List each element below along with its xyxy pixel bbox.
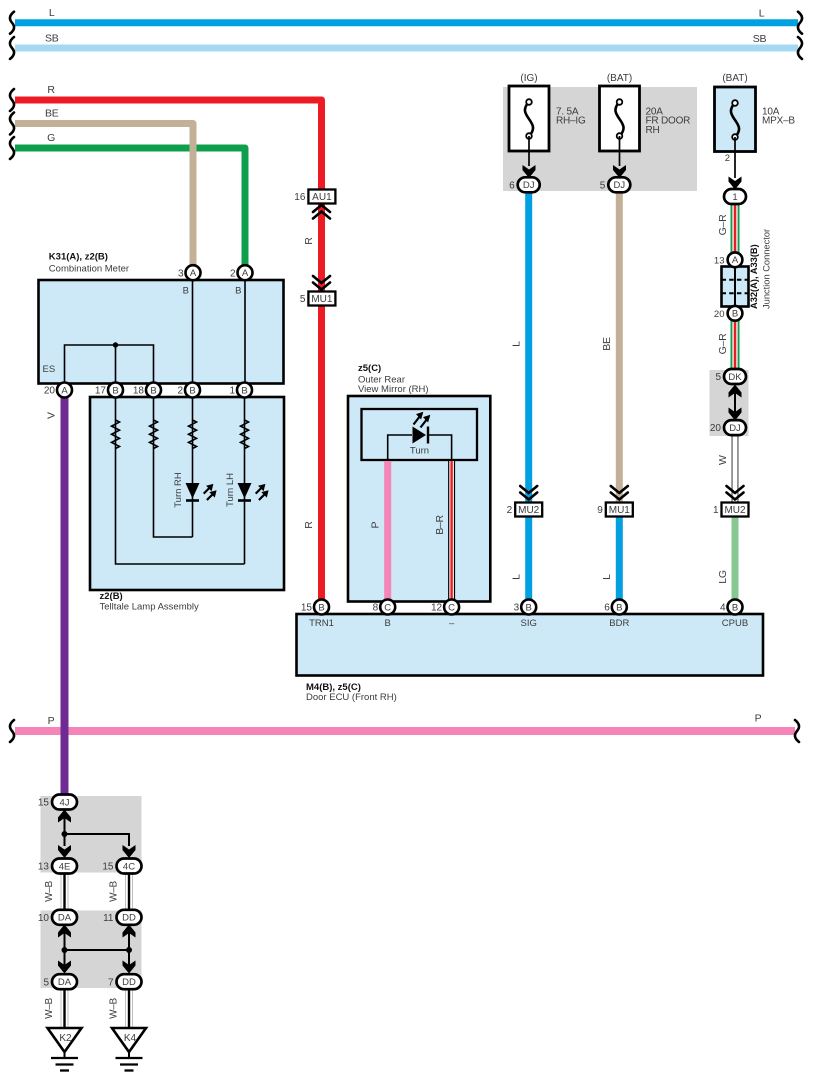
svg-text:5: 5 — [43, 977, 49, 988]
connector 5 DK — [724, 369, 746, 384]
wire W DJ to MU2 — [732, 435, 739, 505]
junction dot DA — [62, 947, 68, 953]
svg-text:RH–IG: RH–IG — [556, 116, 586, 127]
wire B-R mirror to ECU pin12 — [448, 461, 455, 600]
pin 20 B junction — [728, 306, 743, 321]
connector shading 4J/4E/4C — [41, 796, 142, 873]
connector 15 4C — [117, 859, 142, 874]
meter pin 2 B — [185, 383, 200, 398]
fuse 10A MPX-B body — [715, 87, 756, 152]
svg-text:DA: DA — [58, 913, 72, 924]
connector shading DA/DD — [41, 911, 142, 989]
meter internal ES bus wire — [65, 345, 154, 383]
svg-text:MU1: MU1 — [609, 505, 631, 516]
svg-text:B: B — [732, 309, 738, 320]
svg-text:15: 15 — [38, 798, 50, 809]
svg-text:DJ: DJ — [523, 180, 535, 191]
connector 5 DJ — [608, 177, 630, 192]
svg-text:ES: ES — [43, 364, 56, 375]
connector 10 DA — [52, 910, 77, 925]
svg-text:A: A — [242, 268, 249, 279]
wire R AU1 to ECU pin15 — [318, 203, 325, 600]
svg-text:6: 6 — [604, 603, 610, 614]
svg-text:3: 3 — [514, 603, 520, 614]
svg-text:DK: DK — [728, 372, 742, 383]
arrow down to 4E — [58, 845, 71, 858]
svg-text:10: 10 — [38, 913, 50, 924]
ground K2 — [48, 1028, 82, 1052]
svg-text:P: P — [48, 715, 55, 727]
meter internal wire pin2A to pin1B, B — [244, 280, 246, 383]
mirror turn lamp inner box — [362, 409, 478, 460]
meter pin 18 B — [146, 383, 161, 398]
svg-text:Junction Connector: Junction Connector — [762, 229, 772, 309]
svg-text:P: P — [755, 713, 762, 725]
svg-text:MU1: MU1 — [311, 294, 333, 305]
wire L bus — [15, 19, 798, 26]
connector 6 DJ — [518, 177, 540, 192]
svg-text:R: R — [303, 521, 315, 529]
svg-text:G: G — [47, 132, 55, 144]
svg-text:B: B — [526, 602, 532, 613]
link 4J to 4E/4C — [65, 809, 130, 846]
svg-text:B: B — [183, 286, 189, 297]
svg-text:13: 13 — [38, 862, 50, 873]
wire G feed — [15, 148, 245, 266]
svg-text:2: 2 — [230, 268, 236, 279]
combination meter box K31(A) z2(B) — [39, 280, 284, 384]
svg-text:DJ: DJ — [613, 180, 625, 191]
junction dot DD — [126, 947, 132, 953]
svg-text:CPUB: CPUB — [722, 618, 748, 629]
meter pin 3 A — [186, 265, 201, 280]
svg-text:11: 11 — [103, 913, 114, 924]
connector 5 DA — [52, 974, 77, 989]
svg-text:MU2: MU2 — [518, 505, 540, 516]
wire L fuse to SIG — [525, 191, 532, 600]
svg-text:B: B — [235, 286, 241, 297]
svg-text:B: B — [112, 385, 118, 396]
chevron down at MU2 CPUB — [727, 486, 744, 500]
svg-text:SB: SB — [753, 33, 767, 45]
connector 13 4E — [52, 859, 77, 874]
wire SB bus — [15, 45, 798, 52]
svg-text:View Mirror (RH): View Mirror (RH) — [358, 384, 429, 395]
junction block J/B shading (fuse area) — [503, 87, 697, 191]
resistor pin18 — [150, 420, 158, 449]
svg-text:B–R: B–R — [434, 515, 446, 535]
fuse FR DOOR drop to 5DJ — [619, 136, 621, 166]
fuse 20A FR DOOR RH — [600, 86, 640, 151]
svg-text:(IG): (IG) — [520, 73, 537, 84]
mirror turn lamp wiring — [388, 435, 452, 459]
resistor pin1 — [241, 420, 249, 449]
wire LG MU2 to CPUB — [732, 504, 739, 600]
wire P bus lower — [15, 727, 795, 735]
svg-text:15: 15 — [102, 862, 114, 873]
chevron down at MU2 SIG — [520, 486, 537, 500]
svg-text:Turn LH: Turn LH — [225, 473, 236, 507]
svg-text:W–B: W–B — [109, 997, 120, 1018]
svg-text:B: B — [318, 602, 324, 613]
ground K4 — [112, 1028, 146, 1052]
arrow up to DA — [58, 925, 71, 938]
svg-text:K2: K2 — [59, 1033, 72, 1044]
arrow down to 7DD — [123, 961, 136, 974]
svg-text:20: 20 — [710, 423, 722, 434]
svg-text:9: 9 — [597, 505, 603, 516]
svg-text:B: B — [150, 385, 156, 396]
ECU pin 12 C — [444, 600, 459, 615]
svg-text:2: 2 — [725, 153, 730, 164]
LED Turn RH — [186, 483, 200, 499]
connector 2 MU2 — [515, 503, 542, 517]
link DA/DD to 5DA/7DD — [65, 925, 130, 968]
svg-text:4E: 4E — [59, 861, 71, 872]
outer rear view mirror box z5(C) — [348, 396, 490, 602]
svg-text:3: 3 — [178, 268, 184, 279]
mirror LED diode — [413, 427, 427, 444]
svg-text:C: C — [448, 602, 455, 613]
svg-text:BE: BE — [45, 108, 59, 120]
svg-text:Door ECU (Front RH): Door ECU (Front RH) — [306, 692, 397, 703]
telltale wire pin2 branch — [192, 397, 194, 537]
ECU pin 6 B — [612, 600, 627, 615]
svg-text:4C: 4C — [123, 861, 135, 872]
connector 7 DD — [117, 974, 142, 989]
svg-text:–: – — [449, 618, 455, 629]
junction connector A32(A) A33(B) — [722, 267, 749, 307]
svg-text:L: L — [759, 8, 765, 20]
svg-text:L: L — [511, 574, 523, 580]
svg-text:5: 5 — [715, 372, 721, 383]
svg-text:z5(C): z5(C) — [358, 363, 381, 374]
svg-text:17: 17 — [95, 386, 107, 397]
meter pin 1 B — [237, 383, 252, 398]
svg-text:13: 13 — [714, 256, 725, 267]
svg-text:(BAT): (BAT) — [607, 73, 632, 84]
svg-text:7: 7 — [108, 977, 114, 988]
svg-text:5: 5 — [300, 294, 306, 305]
svg-text:C: C — [384, 602, 391, 613]
junction dot 4J — [62, 831, 68, 837]
ECU pin 3 B — [521, 600, 536, 615]
svg-text:R: R — [47, 84, 55, 96]
arrow down to 4C — [123, 845, 136, 858]
svg-text:B: B — [616, 602, 622, 613]
connector 16 AU1 — [308, 190, 335, 204]
svg-text:z2(B): z2(B) — [100, 591, 123, 602]
svg-text:1: 1 — [229, 386, 235, 397]
resistor pin17 — [112, 420, 120, 449]
svg-text:DJ: DJ — [729, 423, 741, 434]
svg-text:4J: 4J — [59, 797, 69, 808]
svg-text:8: 8 — [373, 603, 379, 614]
fuse 7.5A RH-IG — [509, 86, 549, 151]
svg-text:MPX–B: MPX–B — [762, 116, 795, 127]
arrow down to 5DA — [58, 961, 71, 974]
svg-text:Telltale Lamp Assembly: Telltale Lamp Assembly — [100, 602, 200, 613]
svg-text:Turn RH: Turn RH — [173, 472, 184, 508]
svg-text:B: B — [385, 618, 391, 629]
svg-text:W–B: W–B — [44, 997, 55, 1018]
svg-text:6: 6 — [509, 180, 515, 191]
connector 1 MU2 right — [722, 503, 749, 517]
svg-text:2: 2 — [177, 386, 183, 397]
svg-text:20: 20 — [714, 309, 725, 320]
mirror LED emission arrows — [414, 414, 423, 425]
svg-text:DD: DD — [122, 977, 136, 988]
meter pin 2 A — [238, 265, 253, 280]
svg-text:(BAT): (BAT) — [722, 73, 747, 84]
telltale wire pin1 branch — [244, 397, 246, 564]
svg-text:G–R: G–R — [717, 333, 729, 354]
arrows DK to DJ — [734, 390, 736, 415]
chevron down at MU1 BDR — [611, 486, 628, 500]
svg-text:W–B: W–B — [44, 880, 55, 901]
svg-text:4: 4 — [720, 603, 726, 614]
svg-text:20: 20 — [44, 386, 56, 397]
connector shading DK/DJ — [710, 370, 749, 436]
resistor pin2 — [189, 420, 197, 449]
wire W-B segment 1 — [61, 873, 69, 910]
svg-text:V: V — [46, 412, 58, 419]
svg-text:Combination Meter: Combination Meter — [49, 263, 129, 274]
svg-text:LG: LG — [717, 570, 729, 584]
svg-text:5: 5 — [600, 180, 606, 191]
connector 5 MU1 — [308, 292, 335, 306]
svg-text:BE: BE — [601, 337, 613, 351]
svg-text:B: B — [189, 385, 195, 396]
LED Turn LH — [238, 483, 252, 499]
svg-text:A: A — [190, 268, 197, 279]
svg-text:DA: DA — [58, 977, 72, 988]
svg-text:L: L — [49, 7, 55, 19]
connector 20 DJ — [724, 420, 746, 435]
svg-text:RH: RH — [646, 125, 660, 136]
telltale lamp assembly box z2(B) — [90, 397, 284, 590]
svg-text:SB: SB — [45, 33, 59, 45]
meter pin 17 B — [108, 383, 123, 398]
arrow up to 4J — [58, 810, 71, 823]
svg-text:L: L — [511, 341, 523, 347]
wire W-B segment 4 — [125, 989, 133, 1028]
svg-text:1: 1 — [713, 505, 719, 516]
svg-text:W: W — [717, 455, 729, 465]
wire W-B segment 2 — [125, 873, 133, 910]
door ECU box M4(B) z5(C) — [297, 614, 764, 676]
svg-text:16: 16 — [294, 192, 306, 203]
fuse MPX-B drop to 1 — [734, 137, 736, 178]
meter pin 20 A — [57, 383, 72, 398]
wire R feed — [15, 100, 322, 190]
svg-text:R: R — [303, 237, 315, 245]
fuse RH-IG drop to 6DJ — [528, 136, 530, 166]
connector 9 MU1 — [606, 503, 633, 517]
telltale wire pin18 branch — [154, 397, 193, 537]
wire V meter pin20 to 4J — [61, 397, 69, 795]
chevron down at MU1 red — [313, 276, 330, 290]
svg-text:12: 12 — [431, 603, 443, 614]
svg-text:MU2: MU2 — [724, 505, 746, 516]
svg-text:BDR: BDR — [609, 618, 629, 629]
svg-text:K31(A), z2(B): K31(A), z2(B) — [49, 252, 108, 263]
svg-text:1: 1 — [732, 192, 737, 203]
telltale wire pin17 branch — [116, 397, 245, 564]
svg-text:K4: K4 — [124, 1033, 137, 1044]
svg-text:SIG: SIG — [521, 618, 537, 629]
ECU pin 8 C — [380, 600, 395, 615]
svg-text:Turn: Turn — [410, 446, 429, 457]
connector 1 oval — [724, 189, 746, 204]
svg-text:2: 2 — [507, 505, 513, 516]
svg-text:B: B — [241, 385, 247, 396]
arrow up to DD — [123, 925, 136, 938]
svg-text:G–R: G–R — [717, 214, 729, 235]
svg-text:A: A — [61, 385, 68, 396]
svg-text:18: 18 — [133, 386, 145, 397]
svg-text:A32(A), A33(B): A32(A), A33(B) — [749, 244, 759, 309]
wire BE feed — [15, 124, 193, 266]
wire W-B segment 3 — [61, 989, 69, 1028]
pin 13 A junction — [728, 252, 743, 267]
wire BE fuse to MU1 — [616, 191, 623, 504]
svg-text:B: B — [732, 602, 738, 613]
wire G-R junction B to DK — [731, 321, 740, 371]
svg-text:TRN1: TRN1 — [309, 618, 334, 629]
svg-text:W–B: W–B — [109, 880, 120, 901]
svg-text:A: A — [732, 255, 739, 266]
meter internal junction dot — [113, 342, 118, 347]
chevron up at AU1 — [313, 205, 330, 219]
ECU pin 4 B — [728, 600, 743, 615]
svg-text:15: 15 — [301, 603, 313, 614]
svg-text:L: L — [601, 574, 613, 580]
ECU pin 15 B — [314, 600, 329, 615]
wire G-R fuse1 to junction A — [731, 204, 740, 253]
wire P mirror to ECU pin8 — [384, 461, 391, 600]
meter internal wire pin3A to pin2B, B — [192, 280, 194, 383]
connector 15 4J — [52, 795, 77, 810]
svg-text:AU1: AU1 — [312, 192, 332, 203]
svg-text:P: P — [370, 521, 382, 528]
connector 11 DD — [117, 910, 142, 925]
svg-text:DD: DD — [122, 913, 136, 924]
wire L MU1 to BDR — [616, 504, 623, 600]
